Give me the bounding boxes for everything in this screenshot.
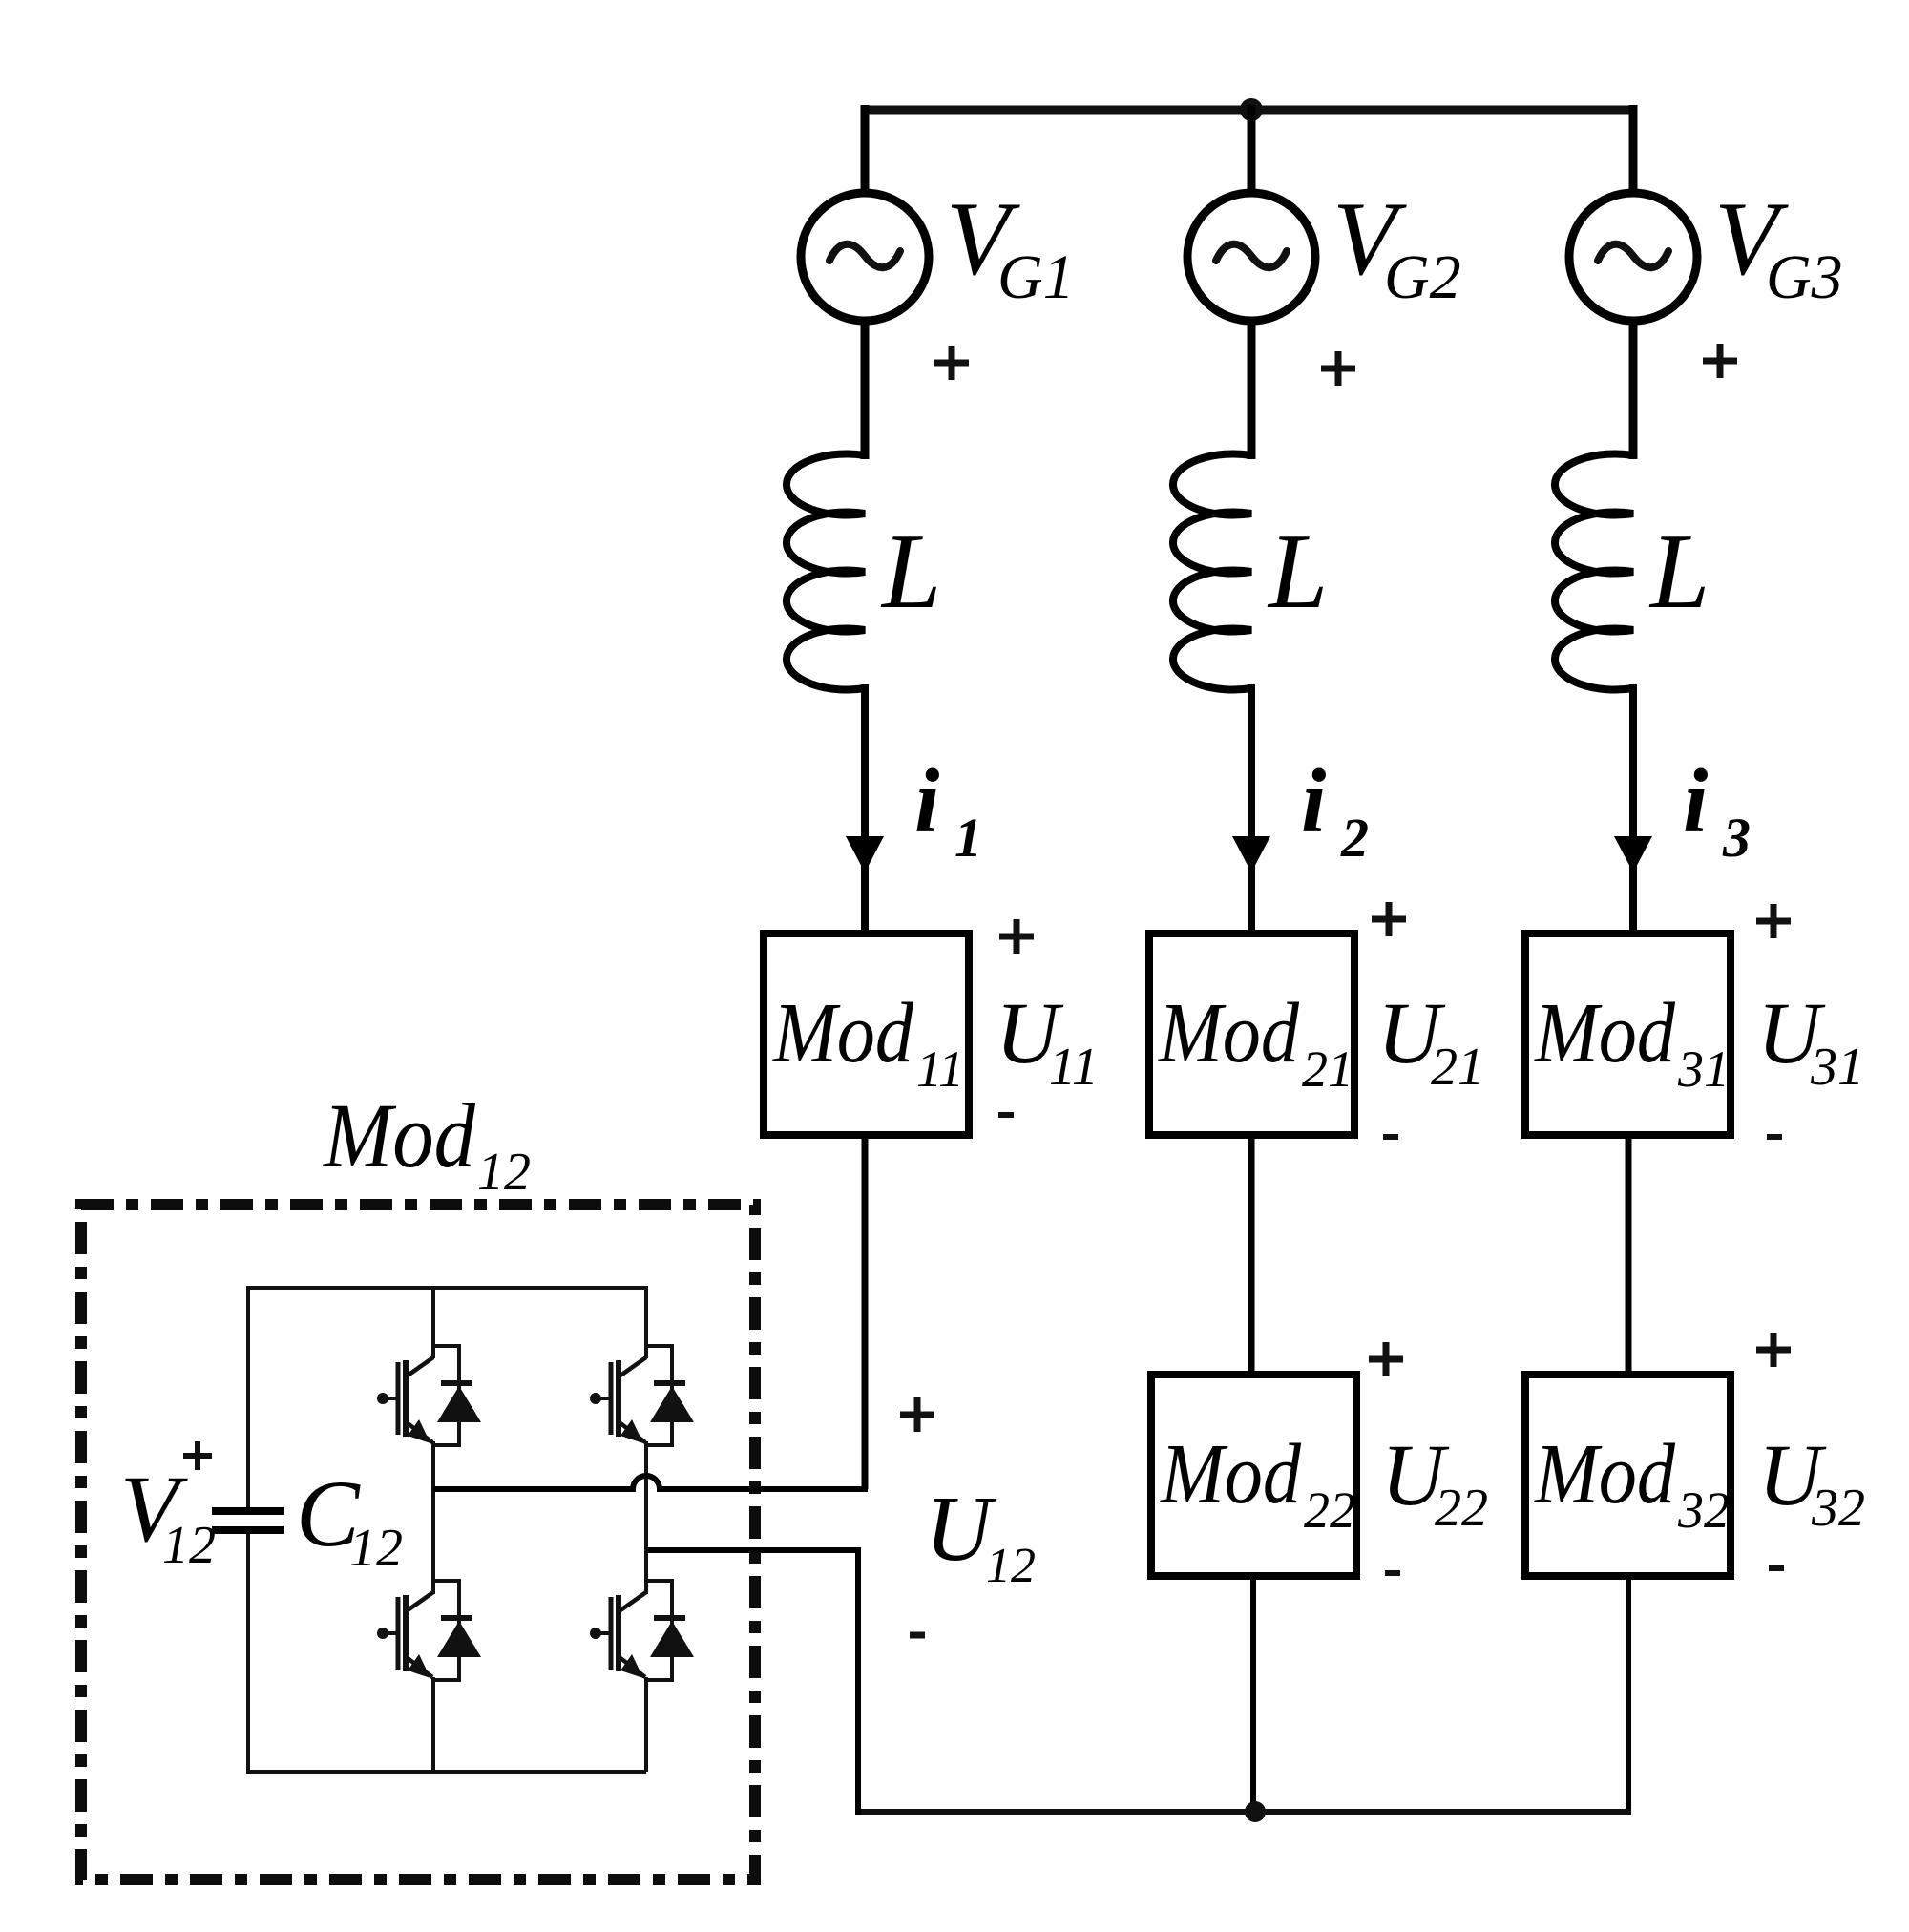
label i2 <box>1301 750 1369 869</box>
label minus U22 <box>1385 1570 1400 1576</box>
wire VG3 top lead <box>1629 105 1638 191</box>
svg-text:32: 32 <box>1811 1479 1865 1538</box>
transistor Q4 IGBT <box>590 1592 646 1678</box>
node bottom junction <box>1245 1801 1266 1822</box>
label plus U21 <box>1372 902 1406 936</box>
module Mod12 dash-dot boundary <box>81 1205 755 1879</box>
inductor L phase 1 <box>787 454 865 690</box>
wire Mod22 to bottom bus <box>1250 1576 1256 1812</box>
module Mod32 <box>1525 1375 1731 1576</box>
wire VG2 to L <box>1248 321 1256 459</box>
label C12 <box>296 1460 403 1578</box>
source VG3 <box>1569 193 1697 321</box>
arrow current i3 <box>1614 836 1652 872</box>
wire bridge right leg lower <box>644 1677 648 1772</box>
wire top bus <box>861 106 1637 115</box>
diode D3 antiparallel <box>433 1581 481 1680</box>
svg-text:32: 32 <box>1677 1481 1730 1539</box>
svg-text:3: 3 <box>1722 807 1751 869</box>
svg-text:G2: G2 <box>1384 242 1461 312</box>
wire Mod32 to bottom bus <box>1626 1576 1631 1812</box>
svg-text:12: 12 <box>477 1143 531 1202</box>
svg-text:Mod: Mod <box>1533 1427 1676 1522</box>
label U31 <box>1757 984 1864 1097</box>
label plus U31 <box>1756 904 1791 938</box>
label plus VG1 <box>934 346 969 380</box>
transistor Q1 IGBT <box>377 1357 433 1443</box>
capacitor C12 <box>212 1511 284 1530</box>
wire Mod21 to Mod22 <box>1248 1135 1255 1378</box>
wire L to Mod31 <box>1629 684 1637 937</box>
wire bridge right leg upper <box>644 1286 648 1358</box>
label minus U31 <box>1767 1134 1782 1140</box>
wire bridge output B <box>646 1547 858 1553</box>
label minus U11 <box>998 1112 1014 1118</box>
wire bottom bus <box>855 1809 1631 1815</box>
label plus U32 <box>1756 1333 1791 1367</box>
wire bridge top rail <box>248 1286 646 1290</box>
label U21 <box>1377 984 1484 1097</box>
wire output B down to bottom bus <box>855 1547 861 1815</box>
inductor L phase 2 <box>1173 454 1251 690</box>
svg-text:22: 22 <box>1435 1479 1488 1538</box>
svg-text:Mod: Mod <box>322 1084 476 1186</box>
diode D1 antiparallel <box>433 1346 481 1445</box>
wire bridge left leg lower <box>431 1677 435 1772</box>
svg-text:12: 12 <box>349 1519 403 1578</box>
wire bridge right leg middle <box>644 1441 648 1594</box>
label minus U21 <box>1383 1134 1398 1140</box>
svg-text:L: L <box>1267 513 1328 631</box>
wire L to Mod21 <box>1248 684 1255 937</box>
wire Mod11 to bridge output A <box>862 1135 869 1489</box>
svg-text:11: 11 <box>1049 1038 1099 1097</box>
label Mod12 <box>322 1084 531 1202</box>
svg-text:22: 22 <box>1304 1481 1355 1539</box>
inductor L phase 3 <box>1555 454 1633 690</box>
label minus U32 <box>1769 1565 1784 1571</box>
arrow current i1 <box>846 836 884 872</box>
label minus U12 <box>910 1632 925 1639</box>
source VG1 <box>801 193 929 321</box>
svg-text:Mod: Mod <box>1157 986 1300 1081</box>
wire L to Mod11 <box>861 684 869 937</box>
label V12 <box>120 1456 216 1575</box>
label plus VG3 <box>1703 344 1737 378</box>
svg-text:i: i <box>914 750 939 851</box>
wire VG2 top lead <box>1248 105 1256 191</box>
label plus VG2 <box>1321 351 1355 386</box>
transistor Q3 IGBT <box>377 1592 433 1678</box>
label VG1 <box>946 180 1075 312</box>
svg-text:Mod: Mod <box>1159 1427 1302 1522</box>
label plus U12 <box>900 1397 934 1432</box>
diode D4 antiparallel <box>646 1581 694 1680</box>
svg-text:11: 11 <box>916 1040 964 1098</box>
label VG2 <box>1332 180 1461 312</box>
svg-text:Mod: Mod <box>771 986 914 1081</box>
svg-text:2: 2 <box>1340 807 1369 869</box>
module Mod21 <box>1149 934 1354 1135</box>
svg-text:12: 12 <box>986 1539 1036 1593</box>
label plus U22 <box>1369 1342 1403 1376</box>
svg-text:i: i <box>1683 750 1708 851</box>
diode D2 antiparallel <box>646 1346 694 1445</box>
svg-text:L: L <box>1648 513 1710 631</box>
wire Mod31 to Mod32 <box>1626 1135 1632 1378</box>
wire capacitor bottom lead <box>246 1530 250 1774</box>
svg-text:21: 21 <box>1431 1038 1484 1097</box>
svg-text:Mod: Mod <box>1533 986 1676 1081</box>
label U22 <box>1381 1426 1488 1538</box>
svg-text:31: 31 <box>1810 1038 1864 1097</box>
wire VG1 top lead <box>861 105 870 191</box>
svg-text:21: 21 <box>1302 1040 1353 1098</box>
svg-text:G3: G3 <box>1766 242 1843 312</box>
label U11 <box>996 984 1099 1097</box>
wire capacitor top lead <box>246 1286 250 1511</box>
label plus V12 <box>183 1441 212 1470</box>
svg-text:i: i <box>1301 750 1326 851</box>
svg-text:G1: G1 <box>997 242 1075 312</box>
wire bridge output A with crossover hop <box>433 1476 868 1489</box>
source VG2 <box>1187 193 1315 321</box>
wire bridge bottom rail <box>248 1770 646 1774</box>
module Mod22 <box>1151 1375 1356 1576</box>
label VG3 <box>1714 180 1843 312</box>
label plus U11 <box>999 919 1034 954</box>
label i3 <box>1683 750 1751 869</box>
node top junction <box>1240 98 1263 121</box>
module Mod11 <box>764 934 969 1135</box>
svg-text:1: 1 <box>954 807 982 869</box>
wire VG1 to L <box>861 321 870 459</box>
label U12 <box>925 1478 1036 1593</box>
svg-text:12: 12 <box>162 1516 216 1575</box>
wire bridge left leg upper <box>431 1286 435 1358</box>
label U32 <box>1758 1426 1865 1538</box>
transistor Q2 IGBT <box>590 1357 646 1443</box>
label i1 <box>914 750 982 869</box>
svg-text:31: 31 <box>1677 1040 1730 1098</box>
svg-text:L: L <box>880 513 941 631</box>
module Mod31 <box>1525 934 1731 1135</box>
wire VG3 to L <box>1629 321 1638 459</box>
wire bridge left leg middle <box>431 1441 435 1594</box>
arrow current i2 <box>1232 836 1270 872</box>
